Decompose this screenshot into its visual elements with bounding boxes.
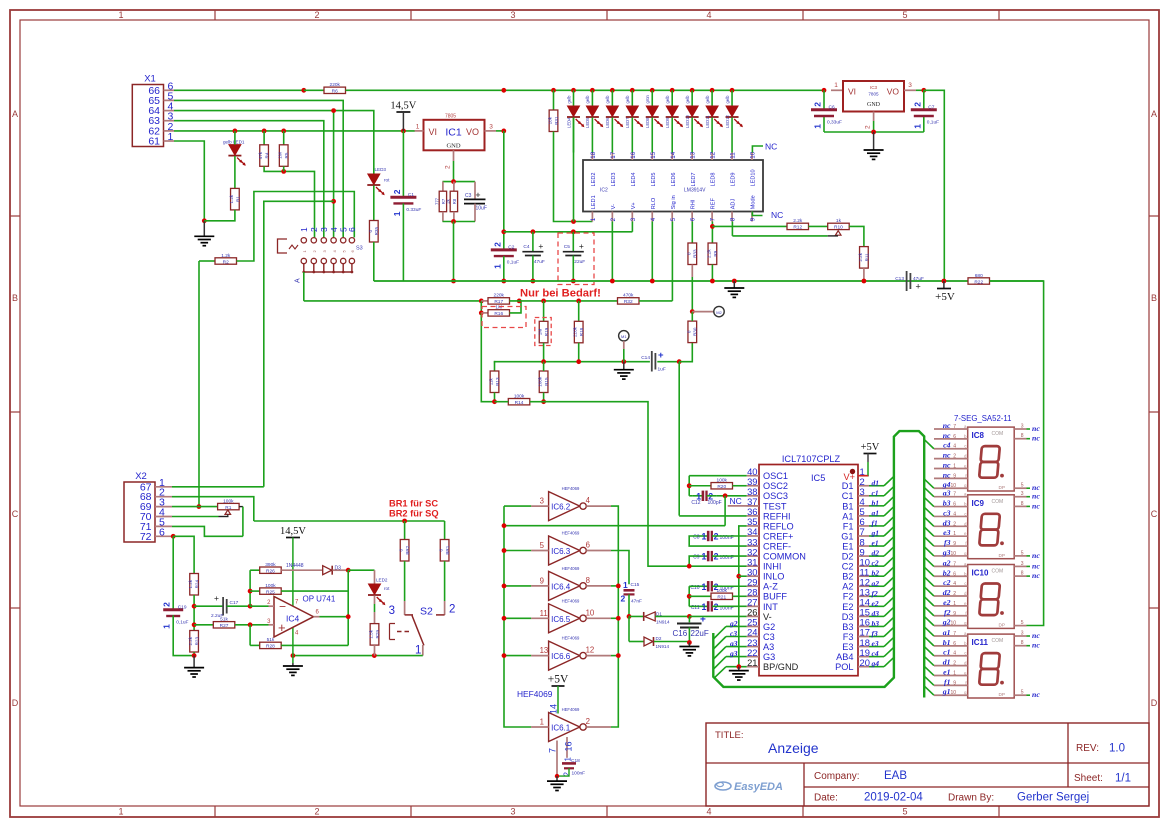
svg-text:b2: b2 (943, 568, 951, 577)
svg-text:g4: g4 (871, 659, 880, 668)
capacitor C1 (390, 196, 416, 199)
wire output stubs (611, 585, 618, 587)
svg-text:g3: g3 (942, 548, 951, 557)
IC9 pin 7 seg a net a3 (934, 496, 968, 498)
svg-text:C6: C6 (829, 105, 835, 111)
IC2 pin 4 RLO (651, 212, 653, 222)
IC10 pin 7 seg a net a2 (934, 565, 968, 567)
net e2 wire + bus entry (869, 605, 884, 607)
svg-text:IC2: IC2 (600, 188, 608, 194)
node R17 right (517, 299, 522, 304)
node R11 bus (862, 279, 867, 284)
resistor R16 (481, 312, 488, 314)
wire REF junction (711, 226, 713, 243)
ruler tick marks (214, 10, 216, 20)
svg-text:3: 3 (630, 217, 637, 221)
wire R27 to pin3 (235, 624, 269, 626)
capacitor C9 (698, 555, 708, 557)
svg-text:7: 7 (953, 631, 956, 637)
switch S3 contacts (301, 238, 306, 243)
wire R19 column top (543, 301, 545, 321)
svg-text:b3: b3 (872, 619, 880, 628)
svg-text:INT: INT (763, 602, 778, 612)
LED LED7 gelb (630, 88, 635, 93)
svg-text:LED7: LED7 (625, 117, 630, 128)
svg-text:rot: rot (384, 586, 390, 591)
node R18 bottom (576, 359, 581, 364)
IC3 pin1 (831, 89, 843, 91)
IC1 pin2 (453, 150, 455, 161)
net g1 wire + bus entry (869, 535, 884, 537)
IC2 pin 13 LED7 (691, 153, 693, 161)
node cluster bus (451, 279, 456, 284)
resistor R19 trimmer (539, 321, 548, 343)
svg-text:1N914: 1N914 (656, 620, 670, 625)
svg-text:E3: E3 (842, 642, 853, 652)
capacitor C10 (698, 585, 708, 587)
node C16 bottom (687, 640, 692, 645)
svg-text:5: 5 (1021, 620, 1024, 626)
IC5 pin 36 REFHI (747, 515, 759, 517)
IC10 pin 5 (1014, 625, 1026, 627)
svg-text:nc: nc (1032, 641, 1040, 650)
ground plus bus (733, 281, 735, 288)
svg-text:R10: R10 (834, 225, 843, 231)
wire INLO (739, 575, 747, 577)
node C4 top (531, 229, 536, 234)
IC9 pin 5 (1014, 555, 1026, 557)
svg-text:2: 2 (392, 189, 402, 194)
IC2 pin 18 LED2 (591, 153, 593, 161)
LED LED12 gelb (730, 88, 735, 93)
wire C4 bottom (532, 256, 534, 282)
IC5 pin 7 G1 (858, 535, 869, 537)
svg-text:HEF4069: HEF4069 (562, 598, 580, 603)
resistor R21 (689, 595, 711, 597)
svg-text:2: 2 (953, 454, 956, 460)
svg-text:1: 1 (701, 552, 706, 562)
svg-text:0: 0 (686, 330, 691, 333)
IC5 box (759, 465, 858, 676)
svg-text:nc: nc (1032, 501, 1040, 510)
svg-text:1.5k: 1.5k (369, 629, 374, 638)
svg-text:A-Z: A-Z (763, 582, 778, 592)
node pin69 (197, 504, 202, 509)
wire C10 rail (688, 586, 690, 606)
dashed box R19 (535, 318, 551, 346)
node C2 bus (501, 279, 506, 284)
svg-text:REFHI: REFHI (763, 511, 791, 521)
svg-text:R22: R22 (974, 279, 983, 285)
svg-text:B2: B2 (842, 572, 853, 582)
wire pin66 to top bus (174, 89, 304, 91)
svg-text:IC1: IC1 (445, 126, 462, 138)
IC5 pin 27 INT (747, 605, 759, 607)
svg-text:1: 1 (953, 531, 956, 537)
wire REF to R12 (712, 225, 787, 227)
svg-text:COM: COM (992, 431, 1004, 437)
IC3 pin2 (873, 112, 875, 122)
node R31 top (551, 88, 556, 93)
svg-text:10uF: 10uF (476, 206, 487, 212)
svg-text:gelb: gelb (705, 95, 710, 104)
wire M2 link (691, 312, 693, 322)
resistor R15 (539, 371, 548, 393)
LED LED11 gelb (710, 88, 715, 93)
svg-text:R16: R16 (494, 311, 503, 317)
svg-text:OP U741: OP U741 (303, 595, 336, 604)
svg-text:e3: e3 (872, 639, 879, 648)
svg-text:LED7: LED7 (691, 173, 697, 187)
resistor R17 (481, 300, 488, 302)
IC5 pin 6 F1 (858, 525, 869, 527)
svg-text:+5V: +5V (861, 442, 880, 453)
capacitor C3 (464, 198, 486, 200)
node divider mid (192, 604, 197, 609)
IC11 pin 3 (1014, 635, 1026, 637)
wire Vminus (689, 615, 746, 617)
wire fb right rail (347, 570, 349, 645)
IC11 pin 4 seg c net c1 (934, 655, 968, 657)
svg-text:13: 13 (540, 646, 549, 655)
svg-text:2: 2 (953, 591, 956, 597)
svg-text:9: 9 (953, 611, 956, 617)
svg-text:1N914: 1N914 (656, 644, 670, 649)
node R18 top (576, 299, 581, 304)
wire Sig in riser (671, 222, 673, 301)
IC5 pin 4 B1 (858, 505, 869, 507)
svg-text:NC: NC (765, 142, 777, 152)
testpoint M1 (619, 331, 629, 341)
svg-text:IC5: IC5 (811, 473, 825, 483)
node R17 left (479, 299, 484, 304)
resistor R13 (490, 371, 499, 393)
node pin3 node (248, 622, 253, 627)
IC8 pin 9 seg f net nc (934, 477, 968, 479)
svg-text:2: 2 (912, 102, 922, 107)
wire fb left rail (249, 570, 251, 606)
svg-text:B: B (12, 293, 18, 303)
IC5 pin 14 E2 (858, 605, 869, 607)
svg-text:1: 1 (540, 718, 544, 727)
IC8 pin 8 (1014, 438, 1026, 440)
svg-text:+5V: +5V (548, 674, 569, 686)
svg-text:REF: REF (711, 198, 717, 210)
svg-text:0.33uF: 0.33uF (406, 207, 421, 213)
capacitor C8 (698, 535, 708, 537)
svg-text:A: A (1151, 109, 1157, 119)
svg-text:14: 14 (670, 151, 677, 158)
wire C17 to pin2 (227, 605, 250, 607)
svg-text:IC6.1: IC6.1 (551, 724, 571, 733)
svg-text:e2: e2 (943, 598, 950, 607)
svg-text:100k: 100k (717, 478, 728, 484)
svg-text:1.0: 1.0 (1109, 743, 1125, 755)
svg-text:22uF: 22uF (691, 629, 709, 638)
svg-text:g1: g1 (871, 529, 880, 538)
IC5 pin 3 C1 (858, 495, 869, 497)
wire C18 bottom (557, 768, 569, 776)
svg-text:16: 16 (564, 741, 574, 751)
resistor R12 (787, 223, 809, 229)
svg-text:C12: C12 (691, 500, 700, 506)
node C14 right (677, 359, 682, 364)
node C12 right (723, 493, 728, 498)
LED LED9 gelb (670, 88, 675, 93)
svg-text:4: 4 (329, 227, 339, 232)
testpoint M2 (714, 306, 724, 316)
wire V- to bus (611, 222, 613, 282)
wire R13 bottom (494, 393, 496, 402)
svg-text:1: 1 (118, 10, 123, 20)
svg-text:IC6.5: IC6.5 (551, 615, 571, 624)
svg-text:LED11: LED11 (705, 115, 710, 128)
svg-text:EasyEDA: EasyEDA (734, 781, 783, 793)
wire R31 top (553, 90, 555, 110)
svg-text:BR2: BR2 (405, 545, 410, 554)
svg-text:b3: b3 (943, 499, 951, 508)
svg-text:220k: 220k (330, 82, 341, 88)
svg-text:nc: nc (1032, 690, 1040, 699)
LED LED6 gelb (610, 88, 615, 93)
svg-text:NC: NC (771, 210, 783, 220)
LED LED4 gelb (571, 88, 576, 93)
svg-text:100k: 100k (223, 498, 234, 504)
svg-text:47uF: 47uF (534, 259, 545, 265)
IC5 pin 19 AB4 (858, 656, 869, 658)
IC5 pin 26 V- (747, 615, 759, 617)
wire R12 R10 (809, 225, 828, 227)
svg-text:Nur bei Bedarf!: Nur bei Bedarf! (520, 288, 601, 300)
svg-text:LED6: LED6 (605, 117, 610, 128)
svg-text:C4: C4 (523, 244, 529, 250)
svg-text:1: 1 (953, 463, 956, 469)
wire C4 top (532, 232, 534, 252)
IC1 pin3 (485, 130, 497, 132)
svg-text:6: 6 (953, 434, 956, 440)
resistor R26 (250, 569, 260, 571)
svg-text:8: 8 (586, 576, 590, 585)
wire X2pin67 riser (264, 201, 334, 487)
wire pin72 to divider (173, 536, 194, 573)
svg-text:2: 2 (162, 602, 172, 607)
svg-text:1N4448: 1N4448 (286, 563, 304, 569)
svg-text:R28: R28 (266, 644, 275, 650)
svg-text:INHI: INHI (763, 562, 781, 572)
S3 common bar (304, 271, 352, 273)
capacitor C7 (911, 108, 937, 111)
svg-text:LED3: LED3 (375, 167, 387, 172)
resistor R33 (688, 243, 697, 265)
wire input stubs (504, 505, 531, 507)
svg-text:5: 5 (670, 217, 677, 221)
X1 pins 61-66 (164, 89, 175, 91)
net a3 bus entry (726, 646, 747, 648)
svg-text:f2: f2 (872, 589, 878, 598)
svg-text:g1: g1 (942, 687, 951, 696)
wire cluster to plus bus (453, 222, 455, 282)
wire R35 to plus bus (373, 242, 375, 281)
wire 14,5V stub (402, 112, 404, 131)
IC5 pin 40 OSC1 (747, 475, 759, 477)
svg-text:4: 4 (706, 10, 711, 20)
IC5 pin 5 A1 (858, 515, 869, 517)
svg-text:gelb: gelb (585, 95, 590, 104)
IC10 pin 10 seg g net g2 (934, 625, 968, 627)
svg-text:2: 2 (309, 227, 319, 232)
IC3 pin3 (904, 89, 916, 91)
IC5 pin 10 C2 (858, 565, 869, 567)
svg-text:7805: 7805 (445, 113, 456, 119)
svg-text:100k: 100k (717, 588, 728, 594)
NC label IC2 pin10 (752, 146, 763, 153)
LED LED5 gelb (590, 88, 595, 93)
svg-text:a3: a3 (730, 639, 738, 648)
wire R1 right (239, 506, 243, 508)
inverter IC6.4 (549, 571, 580, 600)
wire BR1 to S2 (444, 561, 446, 601)
capacitor C14 (651, 351, 653, 372)
wire C8 loop (689, 536, 746, 546)
IC5 pin 22 G3 (747, 656, 759, 658)
svg-text:OSC3: OSC3 (763, 491, 788, 501)
ground BP (738, 667, 740, 671)
node R16 left (479, 311, 484, 316)
svg-text:1: 1 (162, 624, 172, 629)
wire R5 top (283, 131, 285, 145)
svg-text:G1: G1 (841, 531, 853, 541)
svg-text:LED9: LED9 (665, 117, 670, 128)
svg-text:2: 2 (492, 242, 502, 247)
node V- bus (610, 279, 615, 284)
wire pin61 to ground (174, 141, 204, 221)
svg-text:51k: 51k (220, 617, 228, 623)
svg-text:A2: A2 (842, 582, 853, 592)
IC2 pin 2 V- (611, 212, 613, 222)
svg-text:g2: g2 (729, 619, 738, 628)
wire cluster bottom (442, 212, 444, 222)
svg-text:IC4: IC4 (286, 614, 300, 624)
svg-text:8: 8 (1021, 433, 1024, 439)
svg-text:nc: nc (943, 431, 951, 440)
svg-text:BR1: BR1 (445, 545, 450, 554)
IC2 pin 15 LED5 (651, 153, 653, 161)
svg-text:c4: c4 (943, 441, 950, 450)
node IC3 gnd (871, 130, 876, 135)
wire R2 down to X2 pin69 (198, 261, 200, 507)
IC2 pin 9 Mode (751, 212, 753, 222)
svg-text:2.2k: 2.2k (793, 218, 803, 224)
IC1 pin1 (415, 130, 424, 132)
svg-text:8: 8 (1021, 640, 1024, 646)
node R19 bottom (541, 359, 546, 364)
resistor R18 (574, 321, 583, 343)
wire IC1 out to C2 rail (496, 130, 504, 132)
resistor R24 (190, 574, 199, 596)
wire S3 common down (303, 272, 305, 301)
svg-text:10: 10 (586, 608, 595, 617)
svg-text:12: 12 (586, 646, 595, 655)
svg-text:R4: R4 (265, 152, 270, 158)
IC2 pin 12 LED8 (711, 153, 713, 161)
svg-text:1: 1 (953, 601, 956, 607)
svg-text:R14: R14 (515, 400, 524, 406)
resistor R8 (450, 191, 457, 212)
node opamp out (346, 614, 351, 619)
resistor R32 (618, 298, 640, 304)
svg-text:1.2k: 1.2k (188, 579, 193, 588)
svg-text:LED10: LED10 (685, 115, 690, 128)
IC5 pin 39 OSC2 (747, 485, 759, 487)
node C7 top (921, 88, 926, 93)
svg-text:C13: C13 (895, 276, 904, 282)
diode D2 1N914 (629, 641, 644, 643)
svg-text:2: 2 (314, 807, 319, 817)
svg-text:c3: c3 (730, 629, 737, 638)
wire C2 rail upper (503, 131, 505, 250)
svg-text:c2: c2 (872, 559, 879, 568)
wire R1 to ground (204, 210, 235, 221)
wire R25 right (281, 590, 348, 592)
node pin72 (171, 534, 176, 539)
svg-text:E2: E2 (842, 602, 853, 612)
IC11 pin 8 (1014, 645, 1026, 647)
svg-text:B1: B1 (842, 501, 853, 511)
svg-text:A: A (12, 109, 18, 119)
IC5 pin 16 B3 (858, 625, 869, 627)
svg-text:5: 5 (1021, 483, 1024, 489)
svg-text:S3: S3 (356, 246, 363, 252)
svg-text:6: 6 (953, 571, 956, 577)
wire R18 column bottom (578, 343, 580, 362)
IC2 pin 16 LED4 (631, 153, 633, 161)
IC2 pin 5 Sig in (671, 212, 673, 222)
svg-text:5: 5 (902, 807, 907, 817)
wire divider to C17 (194, 605, 223, 607)
node R29 bottom (372, 653, 377, 658)
svg-text:COM: COM (992, 499, 1004, 505)
svg-text:6: 6 (159, 526, 165, 538)
svg-text:X1: X1 (144, 74, 156, 85)
wire C19 column (172, 536, 174, 611)
IC2 pin 17 LED3 (611, 153, 613, 161)
svg-text:G3: G3 (763, 652, 775, 662)
node C16 top (687, 614, 692, 619)
svg-text:0: 0 (686, 252, 691, 255)
svg-text:6: 6 (953, 641, 956, 647)
wire OSC left rail (688, 476, 690, 496)
svg-text:9: 9 (750, 217, 757, 221)
title block dividers (706, 762, 1149, 764)
svg-text:VO: VO (887, 87, 900, 97)
wire R10 to R11 (849, 226, 864, 246)
ground X1 (203, 221, 205, 237)
svg-text:CREF-: CREF- (763, 541, 791, 551)
wire INHI run (544, 402, 690, 566)
svg-text:1: 1 (590, 217, 597, 221)
wire C15 to D1 (628, 594, 630, 616)
svg-text:e1: e1 (943, 667, 950, 676)
svg-text:1.2k: 1.2k (229, 194, 234, 203)
svg-text:D2: D2 (842, 552, 854, 562)
svg-text:100k: 100k (538, 376, 543, 387)
svg-text:100k: 100k (514, 394, 525, 400)
IC5 pin 12 A2 (858, 585, 869, 587)
wire divider to R27 (194, 624, 213, 626)
wire pin65 to S3 col5 (174, 100, 343, 237)
svg-text:1: 1 (392, 211, 402, 216)
svg-text:2: 2 (449, 604, 455, 616)
